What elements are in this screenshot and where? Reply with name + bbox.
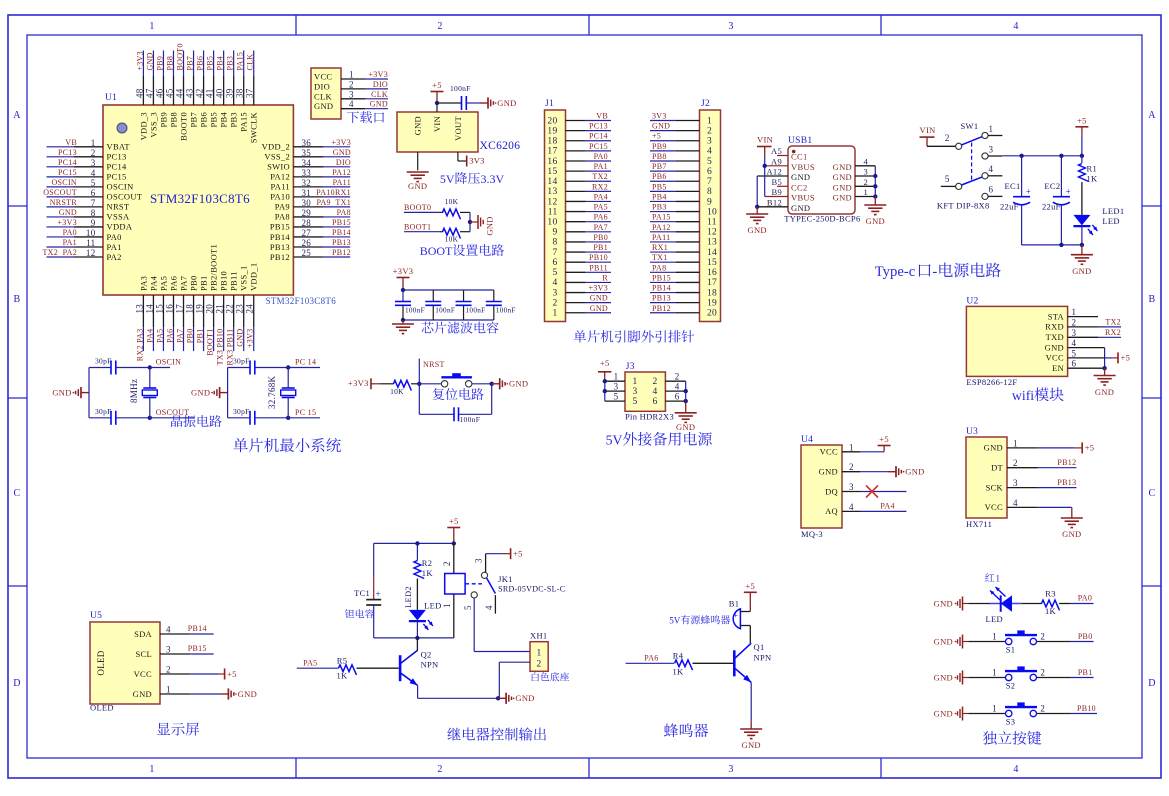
wire bottom rail caps [1022, 243, 1085, 247]
svg-text:R5: R5 [337, 655, 348, 665]
svg-text:VIN: VIN [432, 116, 442, 132]
svg-text:4: 4 [1013, 498, 1018, 508]
svg-text:CC1: CC1 [791, 152, 808, 162]
svg-text:PC14: PC14 [107, 162, 128, 172]
svg-text:17: 17 [707, 278, 717, 288]
U2 pin 5 VCC [1046, 348, 1077, 362]
svg-text:PC13: PC13 [589, 122, 608, 131]
power +5 top right [1075, 116, 1088, 156]
mcu U1 pin 41 PB5 [205, 51, 219, 128]
svg-text:DIO: DIO [336, 158, 351, 167]
transistor Q1 NPN [626, 626, 772, 683]
mcu U1 pin 16 PA6 [164, 276, 178, 351]
svg-text:19: 19 [195, 304, 205, 314]
wire regulator GND pin [417, 152, 419, 170]
connector J1 pin 1 GND [552, 304, 611, 319]
svg-text:GND: GND [1045, 342, 1064, 352]
svg-text:GND: GND [791, 172, 810, 182]
svg-text:TYPEC-250D-BCP6: TYPEC-250D-BCP6 [784, 213, 860, 223]
connector download port body [311, 68, 341, 119]
svg-text:4: 4 [864, 156, 869, 166]
svg-text:PB3: PB3 [652, 203, 667, 212]
svg-text:PB10: PB10 [219, 271, 229, 291]
svg-text:2: 2 [1072, 317, 1077, 327]
svg-text:VSS_1: VSS_1 [239, 265, 249, 291]
svg-text:+3V3: +3V3 [348, 378, 369, 388]
svg-text:2: 2 [552, 298, 557, 308]
svg-text:GND: GND [652, 122, 670, 131]
caption crystal circuit [171, 415, 221, 427]
svg-text:PB3: PB3 [229, 112, 239, 128]
mcu U1 pin 10 PA0 [47, 228, 122, 242]
svg-text:4: 4 [849, 502, 854, 512]
resistor 10K BOOT1 [443, 228, 471, 243]
svg-text:VCC: VCC [985, 502, 1003, 512]
svg-text:10K: 10K [390, 387, 404, 396]
svg-text:GND: GND [934, 636, 953, 646]
download port pin 2 DIO [314, 79, 388, 91]
svg-text:RX2: RX2 [1105, 328, 1121, 337]
diode LED1 [1073, 206, 1124, 245]
svg-text:21: 21 [215, 304, 225, 314]
svg-text:TX3 PB10: TX3 PB10 [216, 329, 225, 366]
U3 pin 2 DT [991, 458, 1018, 472]
svg-text:PB7: PB7 [652, 162, 667, 171]
mcu U1 pin 36 VDD_2 [262, 138, 351, 152]
gnd below filter caps [392, 320, 414, 334]
caption xiazaikou [347, 111, 384, 123]
svg-text:100nF: 100nF [405, 307, 425, 315]
gnd at indicator LED row [934, 597, 969, 611]
svg-text:+5: +5 [652, 132, 661, 141]
svg-text:32.768K: 32.768K [267, 375, 277, 409]
download port pin 1 VCC [314, 70, 388, 82]
svg-text:+5: +5 [745, 581, 755, 591]
svg-text:2: 2 [437, 21, 442, 32]
USB1 pin A12 GND [757, 167, 810, 183]
svg-text:1: 1 [349, 70, 354, 80]
USB1 pin B9 VBUS [765, 187, 815, 203]
svg-text:1K: 1K [1087, 174, 1099, 184]
connector J1 pin 2 GND [552, 294, 611, 309]
svg-text:9: 9 [552, 228, 557, 238]
mcu U1 pin 19 PB1 [195, 275, 209, 351]
gnd at U4 [888, 466, 925, 477]
svg-text:PA1: PA1 [594, 162, 608, 171]
svg-text:AQ: AQ [825, 506, 838, 516]
relay JK1 contacts [463, 554, 503, 614]
svg-text:PB14: PB14 [652, 284, 671, 293]
svg-text:VBUS: VBUS [791, 162, 815, 172]
svg-text:7: 7 [552, 248, 557, 258]
connector J2 pin 17 PB15 [650, 273, 717, 288]
power 3V3 output [467, 156, 485, 167]
svg-text:CLK: CLK [314, 91, 332, 101]
svg-text:A5: A5 [771, 146, 782, 156]
svg-text:PB15: PB15 [270, 222, 290, 232]
U3 pin 1 GND [984, 438, 1018, 452]
svg-text:VDD_2: VDD_2 [262, 142, 290, 152]
wire cap to gnd [466, 102, 480, 104]
svg-text:PA10: PA10 [270, 192, 290, 202]
svg-text:6: 6 [91, 188, 96, 198]
svg-text:15: 15 [547, 167, 557, 177]
svg-text:VSSA: VSSA [107, 212, 130, 222]
connector J2 pin 11 PA15 [650, 213, 717, 228]
svg-text:VSS_2: VSS_2 [264, 152, 290, 162]
svg-text:B12: B12 [767, 197, 782, 207]
mcu U1 pin 7 NRST [47, 198, 130, 212]
svg-text:+: + [734, 611, 739, 620]
svg-text:PA8: PA8 [652, 263, 666, 272]
svg-text:R4: R4 [673, 651, 684, 661]
mcu U1 pin 22 PB11 [225, 271, 239, 365]
svg-text:4: 4 [484, 605, 494, 610]
svg-text:20: 20 [547, 116, 557, 126]
svg-text:2: 2 [652, 377, 657, 387]
U5 pin 2 VCC [134, 665, 171, 679]
mcu U1 pin 35 VSS_2 [264, 148, 351, 162]
connector USB1 body [784, 136, 860, 223]
display U5 OLED body [90, 611, 160, 713]
svg-text:100nF: 100nF [435, 307, 455, 315]
svg-text:GND: GND [833, 193, 852, 203]
svg-text:2: 2 [675, 372, 680, 382]
connector J1 pin 13 RX2 [547, 182, 611, 197]
svg-text:17: 17 [547, 147, 557, 157]
svg-text:1: 1 [989, 124, 994, 134]
connector J2 pin 14 RX1 [650, 243, 717, 258]
svg-text:VIN: VIN [757, 135, 773, 145]
svg-text:VOUT: VOUT [453, 115, 463, 140]
svg-text:+5: +5 [1085, 443, 1095, 453]
svg-text:PC 15: PC 15 [295, 408, 316, 417]
svg-text:S3: S3 [1006, 717, 1016, 727]
buzzer B1 [729, 599, 751, 629]
svg-text:STA: STA [1048, 311, 1065, 321]
svg-text:37: 37 [245, 88, 255, 98]
svg-text:13: 13 [547, 187, 557, 197]
svg-text:1: 1 [614, 372, 619, 382]
USB1 right pin 3 GND [833, 167, 876, 183]
svg-text:J1: J1 [545, 99, 554, 109]
caption reset circuit [433, 388, 484, 400]
mcu U1 pin 44 BOOT0 [175, 43, 189, 141]
svg-text:19: 19 [707, 298, 717, 308]
svg-text:GND: GND [833, 162, 852, 172]
capacitor EC2 22uF [1042, 156, 1071, 245]
svg-text:GND: GND [905, 467, 924, 477]
svg-text:2: 2 [442, 561, 452, 566]
svg-text:PA12: PA12 [270, 172, 290, 182]
mcu U1 pin 29 PA8 [275, 208, 351, 222]
gnd at button S1 [934, 635, 969, 649]
caption mcu pin headers [574, 330, 695, 342]
svg-text:PB2/BOOT1: PB2/BOOT1 [209, 244, 219, 291]
caption hong1 [985, 573, 994, 582]
svg-text:3: 3 [614, 382, 619, 392]
svg-text:JK1: JK1 [498, 574, 513, 584]
svg-text:8: 8 [552, 238, 557, 248]
svg-text:GND: GND [52, 387, 71, 397]
svg-text:GND: GND [413, 116, 423, 135]
connector J1 pin 3 +3V3 [552, 284, 611, 299]
net label BOOT1 wire [404, 222, 443, 231]
diode red LED row [968, 574, 1022, 625]
svg-text:PB10: PB10 [589, 253, 608, 262]
svg-text:GND: GND [1095, 387, 1114, 397]
net label BOOT0 wire [404, 203, 443, 212]
svg-text:PB8: PB8 [165, 56, 174, 71]
svg-text:2: 2 [349, 79, 354, 89]
svg-text:3: 3 [91, 158, 96, 168]
svg-text:STM32F103C8T6: STM32F103C8T6 [266, 296, 337, 306]
svg-text:RXD: RXD [1045, 322, 1064, 332]
svg-text:PB12: PB12 [652, 304, 671, 313]
svg-text:PB1: PB1 [593, 243, 608, 252]
svg-text:VDD_1: VDD_1 [249, 263, 259, 291]
gnd right of 100nF [480, 97, 517, 108]
svg-text:PA11: PA11 [333, 178, 351, 187]
svg-text:+3V3: +3V3 [369, 70, 389, 79]
svg-text:2: 2 [945, 133, 950, 143]
svg-text:PB15: PB15 [188, 644, 207, 653]
svg-text:3: 3 [166, 645, 171, 655]
svg-text:PB11: PB11 [229, 271, 239, 291]
svg-text:12: 12 [707, 228, 717, 238]
svg-text:PA12: PA12 [652, 223, 671, 232]
svg-text:PC15: PC15 [58, 168, 77, 177]
svg-text:PA1: PA1 [107, 242, 122, 252]
wire U5 GND [160, 693, 220, 695]
svg-text:30pF: 30pF [233, 357, 250, 366]
svg-text:OSCOUT: OSCOUT [156, 408, 190, 417]
capacitor 30pF top crystal2 [228, 357, 289, 375]
power +3V3 filter caps [393, 266, 414, 290]
mcu U1 STM32F103C8T6 body [103, 93, 336, 306]
svg-text:BOOT0: BOOT0 [179, 112, 189, 141]
connector J2 pin 6 PB7 [650, 162, 712, 177]
wire U4 VCC to +5 [842, 434, 891, 452]
transistor Q2 NPN [297, 638, 439, 686]
power +5 at J3 [598, 358, 611, 381]
svg-text:5: 5 [552, 268, 557, 278]
svg-text:6: 6 [652, 397, 657, 407]
power +5 at regulator [431, 80, 444, 103]
mcu U1 pin 37 SWCLK [245, 51, 259, 144]
U5 pin 4 SDA [134, 625, 171, 639]
svg-text:6: 6 [1072, 359, 1077, 369]
svg-text:4: 4 [166, 625, 171, 635]
svg-text:12: 12 [86, 248, 96, 258]
wire nrst node to button [419, 383, 441, 385]
svg-text:5: 5 [945, 174, 950, 184]
svg-text:10K: 10K [445, 197, 459, 206]
wire relay top rail [374, 541, 456, 545]
svg-text:PB5: PB5 [652, 182, 667, 191]
svg-text:PC13: PC13 [58, 148, 77, 157]
svg-text:6: 6 [707, 167, 712, 177]
pushbutton reset [441, 374, 472, 387]
svg-text:GND: GND [1062, 529, 1081, 539]
svg-text:1: 1 [849, 442, 854, 452]
svg-text:GND: GND [833, 172, 852, 182]
wire VIN to VBUS pins [763, 156, 767, 197]
svg-text:A: A [13, 110, 21, 121]
svg-text:4: 4 [652, 387, 657, 397]
svg-text:PA6: PA6 [168, 276, 178, 291]
svg-text:PA9 TX1: PA9 TX1 [316, 198, 351, 207]
svg-text:GND: GND [748, 225, 767, 235]
resistor R1 1K [1079, 156, 1099, 215]
svg-text:PA5: PA5 [594, 203, 608, 212]
svg-text:PA4: PA4 [148, 275, 158, 291]
svg-text:wifi: wifi [1012, 388, 1034, 403]
svg-text:2: 2 [1040, 704, 1045, 714]
svg-text:GND: GND [742, 740, 761, 750]
mcu U1 pin 24 VDD_1 [245, 263, 259, 352]
mcu U1 pin 46 PB9 [154, 51, 168, 128]
svg-text:PA15: PA15 [236, 52, 245, 71]
svg-text:GND: GND [236, 329, 245, 347]
connector J1 pin 10 PA6 [547, 213, 611, 228]
svg-text:USB1: USB1 [788, 136, 812, 146]
svg-text:16: 16 [707, 268, 717, 278]
mcu U1 pin 13 PA3 [134, 276, 148, 361]
mcu U1 pin 2 PC13 [47, 148, 127, 162]
svg-text:+5: +5 [432, 80, 442, 90]
svg-text:R1: R1 [1087, 164, 1098, 174]
U5 pin 1 GND [133, 685, 171, 699]
svg-text:PA0: PA0 [107, 232, 122, 242]
connector J1 pin 7 PB1 [552, 243, 611, 258]
svg-text:SDA: SDA [134, 629, 152, 639]
U2 pin 3 TXD [1046, 328, 1077, 342]
svg-text:+3V3: +3V3 [332, 138, 352, 147]
caption white socket [532, 672, 569, 681]
svg-text:32: 32 [302, 178, 312, 188]
svg-text:+5: +5 [1077, 116, 1087, 126]
pushbutton S3 [968, 703, 1097, 727]
caption 5V backup power [606, 432, 712, 448]
gnd at U5 [220, 688, 257, 699]
U2 pin 6 EN [1052, 359, 1076, 373]
mcu U1 pin 8 VSSA [47, 208, 130, 222]
connector J1 pin 9 PA7 [552, 223, 611, 238]
svg-text:GND: GND [485, 216, 495, 235]
gnd at reset [492, 378, 529, 389]
connector J1 pin 19 PC13 [547, 122, 611, 137]
svg-text:PA5: PA5 [155, 329, 164, 343]
svg-text:7: 7 [91, 198, 96, 208]
net RX2 wire U2 [1068, 328, 1121, 337]
svg-text:4: 4 [1013, 21, 1018, 32]
svg-text:BOOT0: BOOT0 [404, 203, 431, 212]
svg-text:PB5: PB5 [209, 112, 219, 128]
svg-text:4: 4 [1013, 764, 1018, 775]
connector J3 body [625, 362, 665, 411]
svg-text:SWIO: SWIO [267, 162, 290, 172]
svg-text:30pF: 30pF [233, 407, 250, 416]
svg-text:VIN: VIN [920, 125, 936, 135]
wire joining boot resistors [468, 212, 472, 231]
svg-text:15: 15 [154, 304, 164, 314]
mcu U1 pin 40 PB4 [215, 51, 229, 128]
wire U2 EN pin6 [1068, 366, 1107, 370]
svg-text:1: 1 [707, 116, 712, 126]
svg-text:20: 20 [707, 309, 717, 319]
svg-text:C: C [1149, 488, 1156, 499]
svg-text:1: 1 [166, 685, 171, 695]
svg-text:GND: GND [934, 672, 953, 682]
wire VIN node [435, 101, 462, 112]
svg-text:45: 45 [164, 88, 174, 98]
svg-text:PB4: PB4 [216, 56, 225, 71]
mcu U1 pin 15 PA5 [154, 276, 168, 351]
USB1 pin B5 CC2 [771, 177, 807, 193]
svg-text:39: 39 [225, 88, 235, 98]
svg-text:+: + [1026, 187, 1031, 197]
svg-text:PB5: PB5 [206, 56, 215, 71]
svg-text:VCC: VCC [134, 669, 152, 679]
svg-text:VCC: VCC [1046, 353, 1064, 363]
svg-text:RX1: RX1 [652, 243, 668, 252]
svg-text:PC 14: PC 14 [295, 358, 316, 367]
svg-text:17: 17 [175, 304, 185, 314]
svg-text:PA5: PA5 [158, 276, 168, 291]
svg-text:LED2: LED2 [403, 586, 413, 608]
capacitor 100nF reset [454, 407, 480, 424]
USB1 pin A9 VBUS [765, 156, 815, 172]
svg-text:36: 36 [302, 138, 312, 148]
svg-text:GND: GND [866, 216, 885, 226]
gnd below LED1 [1071, 245, 1093, 276]
svg-text:GND: GND [590, 294, 608, 303]
svg-text:BOOT0: BOOT0 [176, 43, 185, 70]
svg-text:GND: GND [676, 422, 695, 432]
svg-text:1: 1 [442, 603, 452, 608]
svg-text:OSCIN: OSCIN [51, 178, 77, 187]
svg-text:VSS_3: VSS_3 [148, 112, 158, 138]
svg-text:43: 43 [185, 88, 195, 98]
gnd below J3 [675, 401, 697, 432]
svg-text:OLED: OLED [96, 650, 106, 675]
svg-text:PB1: PB1 [196, 329, 205, 344]
svg-text:48: 48 [134, 88, 144, 98]
connector J1 pin 16 PA0 [547, 152, 611, 167]
svg-text:4: 4 [552, 278, 557, 288]
svg-text:PB9: PB9 [155, 56, 164, 71]
connector J2 body [700, 99, 721, 322]
svg-text:10: 10 [547, 218, 557, 228]
svg-text:PB1: PB1 [199, 275, 209, 291]
svg-text:1K: 1K [337, 671, 349, 681]
svg-text:+3V3: +3V3 [589, 284, 609, 293]
svg-text:9: 9 [91, 218, 96, 228]
svg-text:5: 5 [632, 397, 637, 407]
svg-text:PA2: PA2 [107, 252, 122, 262]
capacitor TC1 tantalum [354, 543, 381, 638]
svg-text:3: 3 [474, 558, 484, 563]
svg-text:+3V3: +3V3 [246, 329, 255, 349]
connector J1 pin 12 PA4 [547, 192, 611, 207]
svg-text:NPN: NPN [421, 660, 439, 670]
svg-text:1: 1 [552, 309, 557, 319]
svg-text:5: 5 [1072, 348, 1077, 358]
connector J1 pin 15 PA1 [547, 162, 611, 177]
svg-text:PA0: PA0 [63, 228, 77, 237]
svg-text:5: 5 [463, 605, 473, 610]
